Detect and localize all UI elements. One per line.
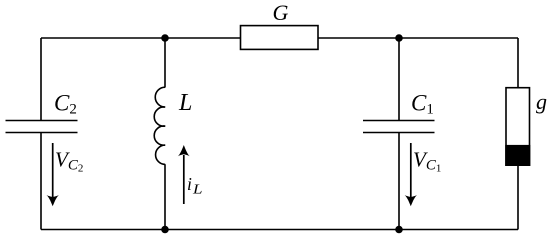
svg-text:g: g (536, 89, 547, 114)
svg-text:G: G (273, 0, 289, 25)
svg-text:iL: iL (187, 174, 203, 196)
svg-text:C2: C2 (54, 91, 77, 118)
svg-text:L: L (178, 90, 192, 116)
svg-text:VC1: VC1 (413, 148, 441, 175)
svg-text:VC2: VC2 (55, 148, 83, 175)
svg-text:C1: C1 (411, 91, 434, 118)
